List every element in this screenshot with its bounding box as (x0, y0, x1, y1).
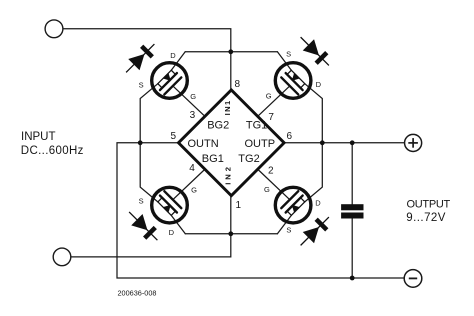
svg-text:IN2: IN2 (223, 164, 232, 185)
svg-text:D: D (169, 228, 175, 237)
wire input+ top rail from terminal to IN1 (pin 8) (63, 29, 231, 90)
diode D1 (body diode Q1) (120, 38, 160, 78)
svg-text:4: 4 (189, 163, 195, 174)
svg-text:D: D (315, 199, 321, 208)
svg-text:OUTN: OUTN (188, 138, 219, 150)
wire drain column right (Q2 D to Q4 D) (305, 84, 323, 202)
svg-text:S: S (139, 197, 144, 206)
transistor Q3 (bottom-left MOSFET) (144, 180, 194, 230)
diode D4 (body diode Q4) (295, 211, 335, 251)
svg-text:D: D (316, 80, 322, 89)
svg-text:2: 2 (268, 166, 274, 177)
wire gate Q4 to pin 2 (258, 169, 290, 199)
node junction dot OUTP capacitor top (350, 140, 355, 145)
svg-text:INPUT: INPUT (21, 131, 56, 143)
node junction dot OUTP drain column (320, 140, 325, 145)
wire gate Q3 to pin 4 (173, 169, 205, 199)
wire bottom horizontal D-S rail (185, 233, 277, 235)
op-amp U1 bridge driver IC (diamond body) (178, 90, 284, 196)
node junction dot top (pin 8 net) (228, 49, 233, 54)
svg-text:S: S (139, 80, 144, 89)
svg-text:S: S (286, 49, 291, 58)
wire capacitor top lead (351, 143, 353, 204)
svg-text:IN1: IN1 (223, 99, 232, 115)
svg-text:BG2: BG2 (207, 120, 229, 132)
svg-text:G: G (191, 186, 197, 195)
wire OUTP net (pin 6 to plus terminal) (284, 142, 404, 144)
svg-text:S: S (286, 226, 291, 235)
svg-text:7: 7 (268, 112, 274, 123)
svg-text:G: G (264, 185, 270, 194)
input terminal bottom (53, 248, 71, 266)
diode D3 (body diode Q3) (123, 206, 163, 246)
svg-text:6: 6 (287, 131, 293, 142)
output terminal plus (405, 134, 422, 151)
transistor Q1 (top-left MOSFET) (144, 55, 194, 105)
svg-text:1: 1 (236, 200, 242, 211)
svg-text:DC...600Hz: DC...600Hz (21, 145, 84, 157)
wire diagonal to Q4 source (277, 215, 291, 233)
transistor Q4 (bottom-right MOSFET) (268, 180, 318, 230)
capacitor C1 plates (341, 204, 363, 218)
transistor Q2 (top-right MOSFET) (268, 55, 318, 105)
svg-text:200636-008: 200636-008 (118, 288, 157, 297)
wire input- bottom rail from terminal to IN2 (pin 1) (71, 196, 231, 257)
node junction dot bottom (pin 1 net) (228, 231, 233, 236)
svg-text:5: 5 (171, 131, 177, 142)
wire capacitor bottom lead (351, 219, 353, 279)
wire diagonal to Q3 drain (171, 215, 185, 233)
svg-text:D: D (170, 51, 176, 60)
wire diagonal to Q1 drain (171, 52, 185, 70)
wire gate Q2 to pin 7 (258, 86, 290, 116)
node junction dot OUTN left (138, 140, 143, 145)
svg-text:TG1: TG1 (246, 120, 267, 132)
svg-text:OUTP: OUTP (245, 138, 276, 150)
input terminal top (45, 20, 63, 38)
wire source column left (Q1 S to Q3 S) (140, 84, 158, 202)
wire top horizontal D-S rail (185, 51, 277, 53)
diode D2 (body diode Q2) (295, 31, 335, 71)
svg-text:G: G (266, 92, 272, 101)
wire OUTN net (pin 5 to minus terminal) (117, 143, 405, 278)
svg-text:8: 8 (235, 79, 241, 90)
svg-text:TG2: TG2 (238, 153, 259, 165)
svg-text:BG1: BG1 (202, 153, 224, 165)
output terminal minus (404, 270, 422, 288)
wire diagonal to Q2 source (277, 52, 291, 70)
svg-text:G: G (190, 92, 196, 101)
node junction dot OUTN capacitor bottom (350, 276, 355, 281)
svg-text:OUTPUT: OUTPUT (407, 199, 451, 211)
svg-text:9...72V: 9...72V (406, 212, 446, 224)
svg-text:3: 3 (190, 110, 196, 121)
wire gate Q1 to pin 3 (173, 86, 205, 116)
